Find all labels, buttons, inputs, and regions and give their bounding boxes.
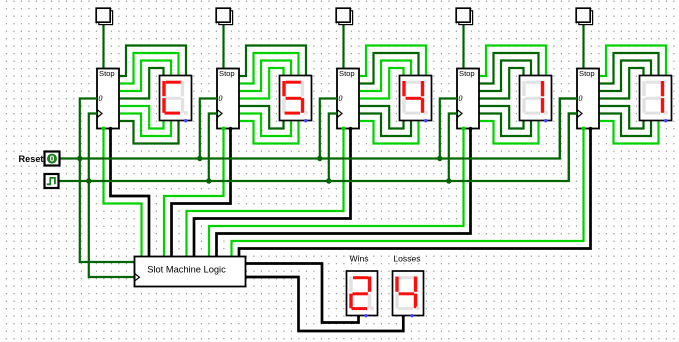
svg-text:Slot Machine Logic: Slot Machine Logic [147, 264, 226, 274]
svg-text:Stop: Stop [99, 69, 115, 78]
svg-text:Losses: Losses [393, 254, 420, 264]
svg-text:0: 0 [50, 155, 55, 164]
svg-text:0: 0 [338, 94, 342, 103]
svg-text:0: 0 [458, 94, 462, 103]
svg-text:0: 0 [98, 94, 102, 103]
svg-text:Stop: Stop [579, 69, 595, 78]
svg-text:0: 0 [218, 94, 222, 103]
svg-text:Stop: Stop [219, 69, 235, 78]
svg-text:Reset: Reset [18, 154, 43, 164]
svg-text:0: 0 [578, 94, 582, 103]
svg-text:Stop: Stop [459, 69, 475, 78]
svg-text:Wins: Wins [349, 254, 368, 264]
svg-text:Stop: Stop [339, 69, 355, 78]
